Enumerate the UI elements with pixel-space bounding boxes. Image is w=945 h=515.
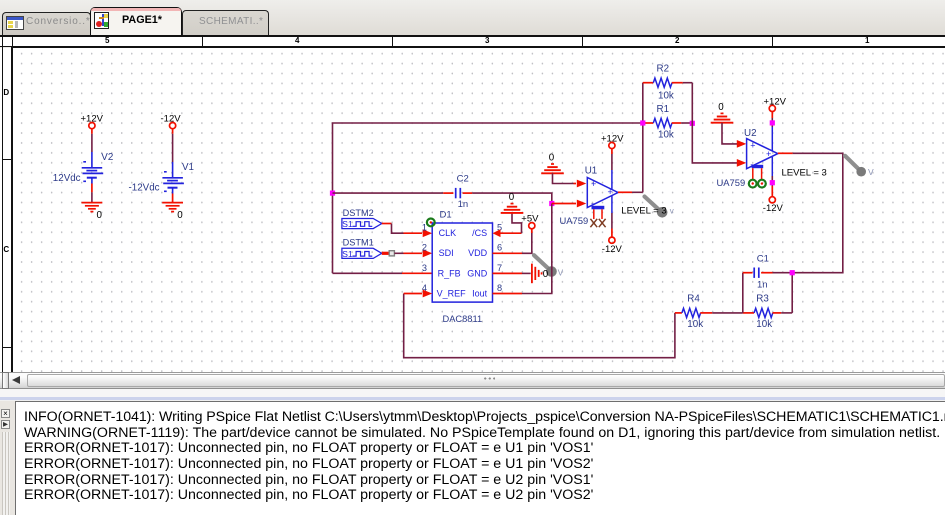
svg-text:UA759: UA759 <box>717 177 746 188</box>
node junction R1 right <box>690 121 695 126</box>
svg-text:v: v <box>670 207 674 216</box>
power pin U2 -12V <box>763 157 784 214</box>
svg-text:U2: U2 <box>744 128 757 139</box>
pin wire V2 bottom <box>91 184 93 203</box>
voltage source V2 <box>53 152 113 184</box>
svg-text:R1: R1 <box>657 104 670 115</box>
voltage probe at U2 output <box>845 156 874 177</box>
svg-text:10k: 10k <box>756 319 772 330</box>
node junction C2 tap <box>330 191 335 196</box>
svg-text:10k: 10k <box>658 91 674 102</box>
svg-text:V_REF: V_REF <box>437 288 467 298</box>
wire GND pin 7 <box>493 272 531 274</box>
node junction U2 +12V stem <box>770 120 775 125</box>
DAC8811 D1 body <box>432 223 492 302</box>
ground 0 at GND pin (rotated) <box>532 264 549 284</box>
svg-text:SDI: SDI <box>439 248 454 258</box>
wire ground to U1 +input <box>553 173 587 187</box>
stimulus DSTM2 <box>342 208 382 229</box>
svg-text:V2: V2 <box>101 152 113 163</box>
wire DSTM2 to CLK <box>382 224 432 238</box>
svg-text:R_FB: R_FB <box>438 268 461 278</box>
label LEVEL = 3 (U1) <box>621 206 674 217</box>
svg-text:Iout: Iout <box>472 288 488 298</box>
resistor R1 <box>643 104 693 141</box>
node junction R1 left <box>640 120 645 125</box>
svg-text:1n: 1n <box>757 279 768 290</box>
tab SCHEMATI <box>182 10 269 36</box>
svg-text:V: V <box>558 269 564 278</box>
node junction U2 -12V stem <box>770 180 775 185</box>
tab PAGE1 (active) <box>90 7 182 36</box>
ERC green rings U2 VOS pins <box>749 180 766 188</box>
power flag +5V <box>521 214 539 229</box>
wire U1 -input <box>552 200 587 208</box>
svg-text:/CS: /CS <box>472 228 487 238</box>
wire feedback top-left vertical <box>333 123 643 273</box>
voltage probe at VDD <box>534 255 552 271</box>
svg-text:S1: S1 <box>342 249 353 259</box>
svg-text:0: 0 <box>97 210 103 221</box>
svg-text:DAC8811: DAC8811 <box>443 314 483 324</box>
wire C2 to U1 input node <box>472 193 552 203</box>
resistor R3 <box>743 294 792 331</box>
log text area <box>15 401 945 515</box>
wire Iout pin 8 to U1 input <box>493 204 552 294</box>
svg-text:1: 1 <box>422 223 427 233</box>
wire V1 top <box>172 134 174 162</box>
wire R2 left vertical <box>642 83 644 193</box>
svg-text:LEVEL = 3: LEVEL = 3 <box>782 167 827 178</box>
power pin U1 +12V <box>601 134 624 189</box>
svg-text:DSTM2: DSTM2 <box>343 208 374 218</box>
svg-text:-12V: -12V <box>602 244 623 255</box>
wire C1 right branch <box>791 273 793 313</box>
resistor R2 <box>643 64 693 102</box>
svg-text:R4: R4 <box>687 294 700 305</box>
svg-text:-12Vdc: -12Vdc <box>129 183 160 194</box>
ground 0 above U1 +input <box>541 152 564 173</box>
wire DSTM1 to SDI <box>382 249 432 257</box>
svg-text:10k: 10k <box>687 319 703 330</box>
svg-text:C2: C2 <box>457 174 469 185</box>
wire C2 row left <box>333 192 444 194</box>
svg-text:+: + <box>591 179 596 189</box>
capacitor C2 <box>443 174 472 210</box>
tab Conversio <box>2 12 91 36</box>
svg-text:0: 0 <box>509 192 515 203</box>
svg-text:R2: R2 <box>657 64 670 75</box>
svg-text:-12V: -12V <box>763 203 784 214</box>
power flag -12V (V1) <box>161 114 182 134</box>
wire ground to U2 +input <box>722 123 746 148</box>
vertical ruler <box>3 48 11 372</box>
power pin U1 -12V <box>602 196 623 255</box>
svg-text:V: V <box>868 167 874 177</box>
svg-text:0: 0 <box>718 102 724 113</box>
op-amp U2 <box>717 128 778 188</box>
voltage source V1 <box>129 162 194 194</box>
wire R2 right vertical to U2 -input <box>692 83 746 167</box>
svg-text:0: 0 <box>177 210 183 221</box>
svg-text:CLK: CLK <box>439 228 457 238</box>
svg-text:7: 7 <box>497 263 502 273</box>
pin wire V1 bottom <box>172 194 174 203</box>
svg-text:LEVEL = 3: LEVEL = 3 <box>621 206 666 217</box>
wire VDD pin 6 <box>493 229 532 253</box>
svg-text:+: + <box>750 141 755 151</box>
svg-text:6: 6 <box>497 243 502 253</box>
wire U2 output <box>778 153 843 272</box>
svg-text:C1: C1 <box>757 254 769 265</box>
wire bottom loop to V_REF pin 4 <box>404 290 675 358</box>
window left border <box>2 37 3 373</box>
svg-text:V1: V1 <box>182 162 194 173</box>
svg-text:0: 0 <box>543 269 549 280</box>
svg-text:DSTM1: DSTM1 <box>343 238 374 248</box>
svg-text:10k: 10k <box>658 130 674 141</box>
svg-text:UA759: UA759 <box>560 215 589 226</box>
svg-text:2: 2 <box>422 243 427 253</box>
wire C1 left branch <box>742 273 744 313</box>
svg-text:12Vdc: 12Vdc <box>53 173 81 184</box>
svg-text:D1: D1 <box>440 210 452 221</box>
svg-text:U1: U1 <box>585 165 598 176</box>
op-amp U1 <box>560 165 619 226</box>
capacitor C1 <box>743 254 792 291</box>
ground 0 under V1 <box>162 203 183 221</box>
power flag +12V (V2) <box>81 114 104 134</box>
wire feedback to R_FB pin 3 <box>333 272 433 274</box>
power pin U2 +12V <box>764 96 787 151</box>
svg-text:8: 8 <box>497 283 502 293</box>
ground 0 above U2 +input <box>711 102 734 123</box>
svg-text:R3: R3 <box>756 294 769 305</box>
svg-text:VDD: VDD <box>468 248 488 258</box>
page border <box>11 47 13 373</box>
stimulus DSTM1 <box>342 238 382 259</box>
left mini column <box>1 409 10 419</box>
resistor R4 <box>675 294 743 331</box>
node junction U1 inverting input <box>549 201 554 206</box>
node junction C1/R3 right <box>790 270 795 275</box>
svg-text:S1: S1 <box>342 219 353 229</box>
wire U1 output <box>618 191 643 193</box>
svg-text:0: 0 <box>549 152 555 163</box>
ERC marker green ring at pin 1 <box>427 219 435 227</box>
svg-text:+: + <box>766 149 771 159</box>
ERC X marks U1 VOS pins <box>590 219 605 227</box>
voltage probe at U1 output <box>645 197 668 218</box>
svg-text:3: 3 <box>422 263 427 273</box>
svg-text:GND: GND <box>467 268 488 278</box>
ground 0 at /CS <box>501 192 524 213</box>
ground 0 under V2 <box>82 203 103 221</box>
wire /CS pin 5 <box>493 213 522 237</box>
svg-text:1n: 1n <box>458 199 469 210</box>
wire V2 top <box>91 134 93 152</box>
